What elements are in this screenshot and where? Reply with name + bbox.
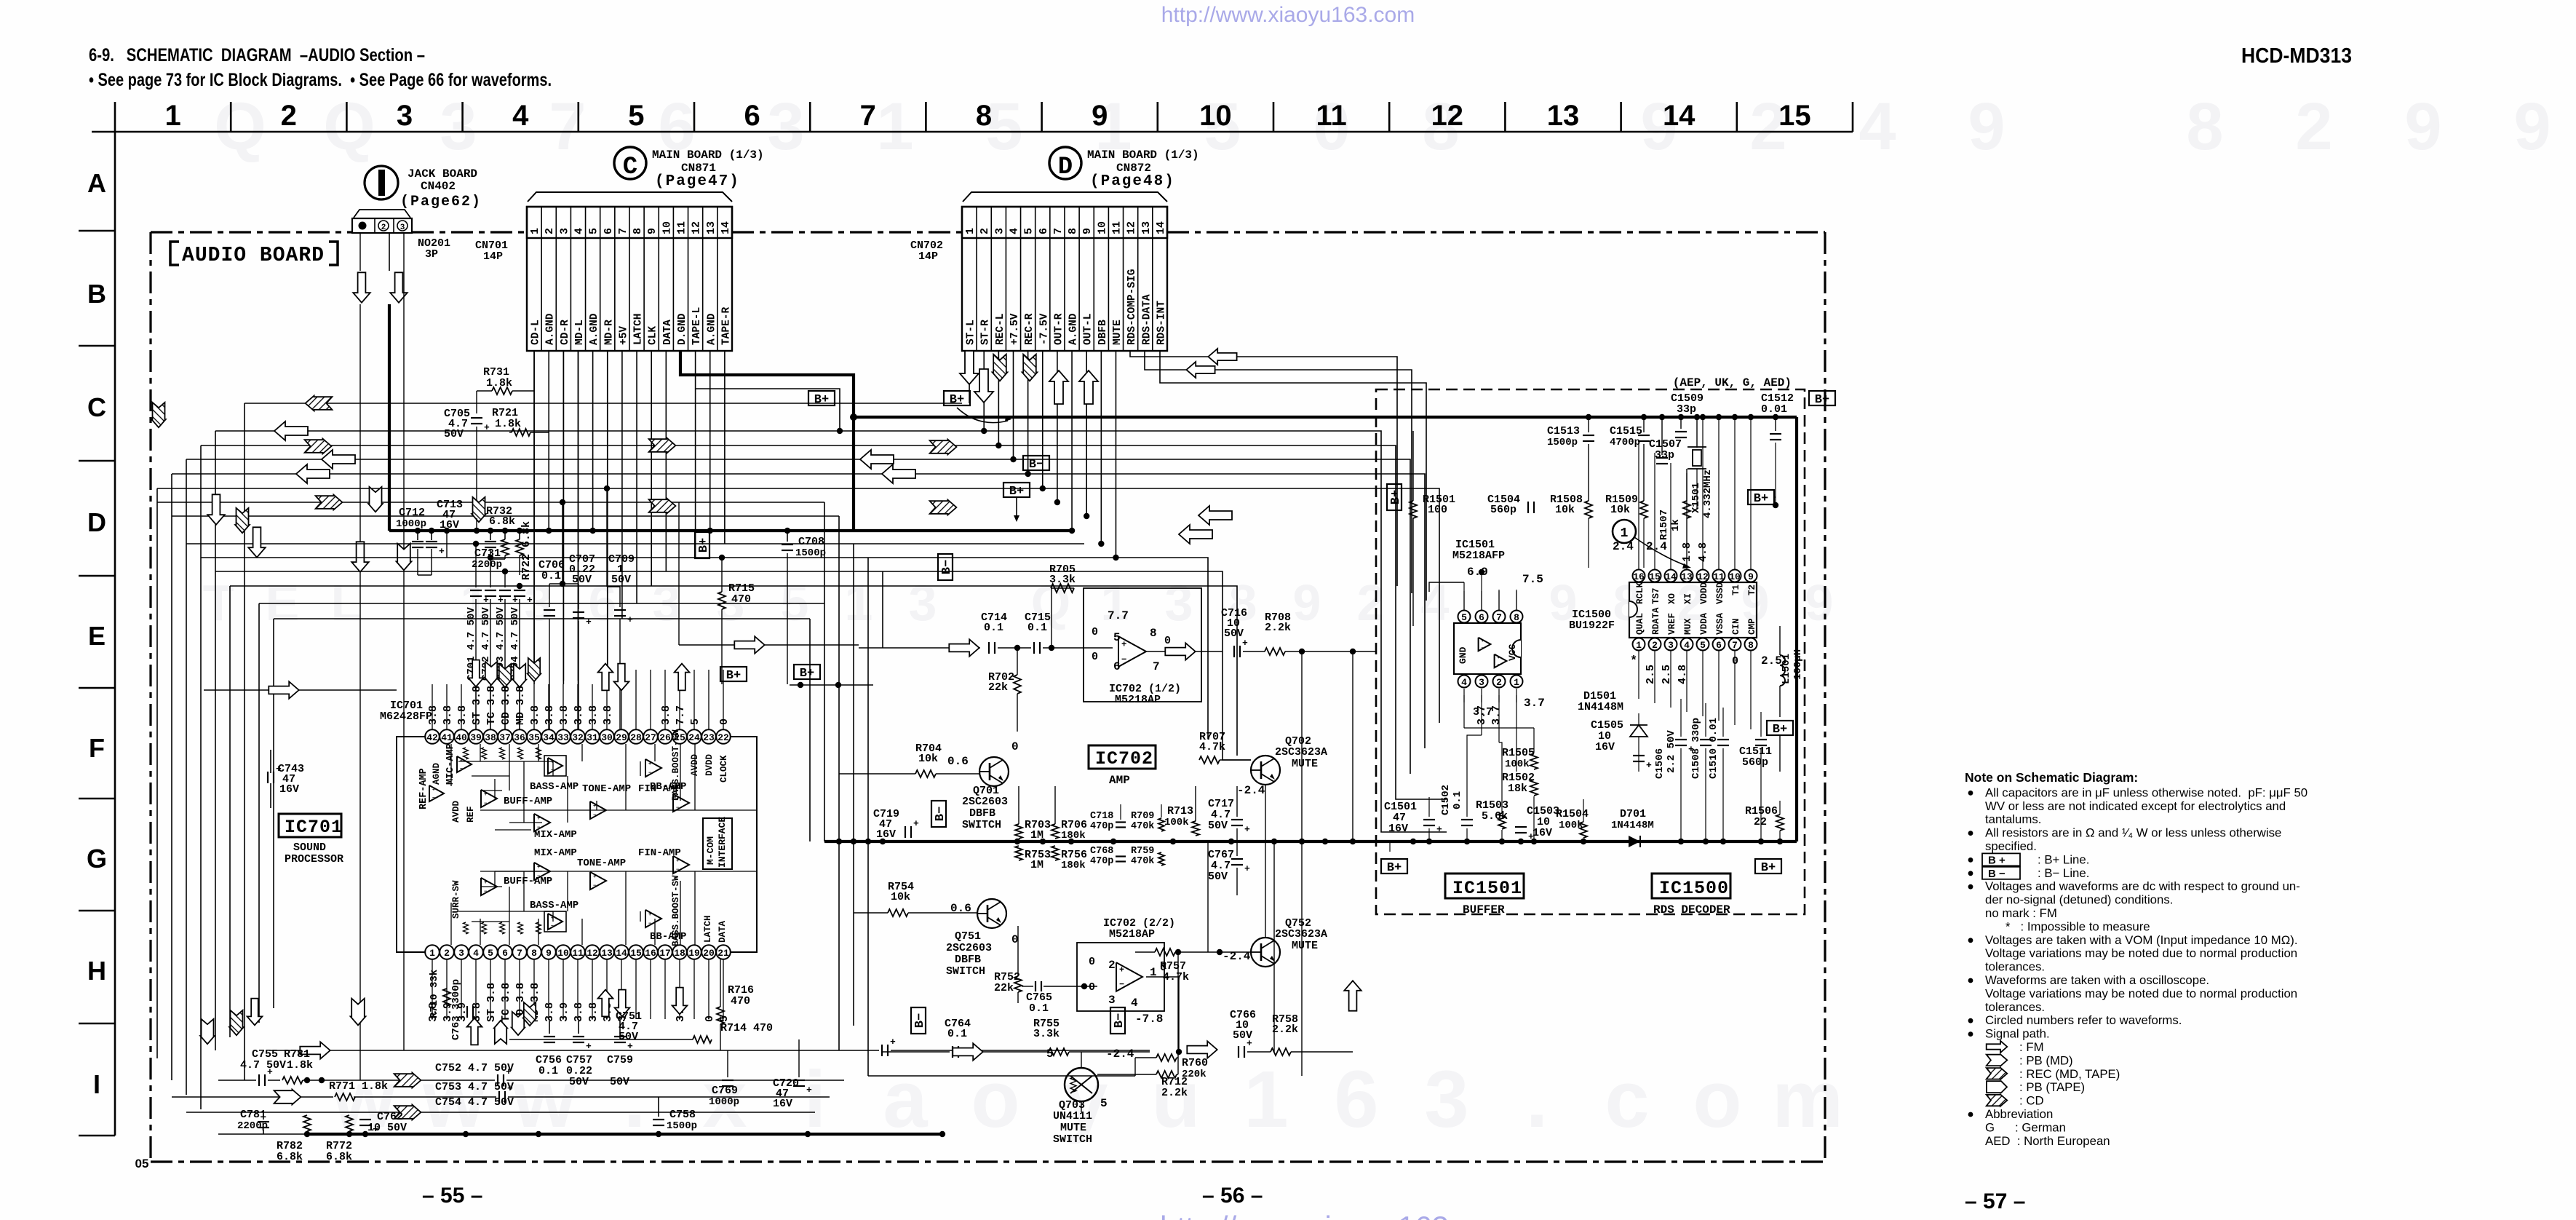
audio board outline right (1824, 232, 1826, 1162)
svg-text:1M: 1M (1030, 859, 1043, 871)
svg-text:MUTE: MUTE (1292, 940, 1318, 952)
svg-text:T: T (203, 574, 234, 631)
IC1501 DIP body (1454, 623, 1521, 674)
row line 1 with C751 (269, 1050, 879, 1051)
svg-text:B+: B+ (1389, 490, 1403, 504)
arrow rec mid 4 (930, 500, 957, 515)
svg-text:+: + (460, 758, 463, 764)
opamp IC702 2/2 box (1077, 943, 1164, 1011)
svg-text:20: 20 (703, 948, 715, 959)
svg-text:REC-R: REC-R (1024, 313, 1035, 345)
svg-text:1: 1 (429, 948, 435, 959)
svg-text:+: + (586, 1041, 592, 1052)
svg-text:IC1501: IC1501 (1452, 878, 1522, 899)
B+ below left (1381, 859, 1407, 875)
svg-text:1500p: 1500p (795, 547, 826, 559)
wire bundle h8 (172, 515, 839, 517)
arrow right row1 (300, 1042, 330, 1058)
svg-text:JACK BOARD: JACK BOARD (408, 167, 477, 181)
audio board label (170, 242, 179, 265)
IC1500 bottom pin wires (1638, 651, 1639, 699)
svg-text:2: 2 (281, 100, 297, 132)
wires CN702 rds pins right (1130, 351, 1397, 586)
svg-text:8: 8 (1748, 640, 1754, 651)
svg-text:TAPE-R: TAPE-R (720, 306, 732, 345)
svg-text:38: 38 (485, 732, 496, 743)
svg-text:0: 0 (1089, 981, 1095, 994)
wire bundle h11 (215, 571, 1251, 760)
svg-text:50V: 50V (1208, 820, 1228, 832)
wire bundle h13 (to IC702 input) (259, 603, 824, 604)
svg-text:9: 9 (646, 228, 659, 234)
svg-text:12: 12 (1431, 100, 1464, 132)
svg-text:9: 9 (1293, 574, 1321, 631)
svg-text:−: − (593, 883, 596, 889)
svg-text:+: + (506, 1066, 512, 1077)
svg-text:: PB (MD): : PB (MD) (2019, 1053, 2073, 1067)
svg-text:30: 30 (601, 732, 613, 743)
svg-text:3: 3 (993, 228, 1006, 234)
svg-text:4.7 50V: 4.7 50V (240, 1059, 286, 1072)
wire IC702 output (1146, 651, 1223, 652)
svg-text:42: 42 (426, 732, 438, 743)
wire bundle h9 (186, 543, 1084, 544)
svg-text:http://www.xiaoyu163.com: http://www.xiaoyu163.com (1160, 1210, 1515, 1220)
IC701 internal wiring mesh (450, 744, 452, 786)
svg-text:2: 2 (1108, 959, 1116, 972)
svg-text:0.1: 0.1 (541, 570, 561, 582)
svg-text:1: 1 (876, 90, 913, 164)
svg-text:Waveforms are taken with a osc: Waveforms are taken with a oscilloscope. (1985, 973, 2209, 987)
svg-text:18: 18 (674, 948, 685, 959)
IC701 bottom pins 1-21 (425, 945, 440, 959)
svg-text:16: 16 (645, 948, 656, 959)
svg-text:BASS-AMP: BASS-AMP (530, 781, 579, 793)
svg-text:D: D (1058, 154, 1073, 181)
svg-text:13: 13 (601, 948, 613, 959)
left ruler line (114, 132, 116, 1136)
svg-text:+5V: +5V (618, 326, 629, 345)
svg-text:3.7: 3.7 (1490, 705, 1503, 725)
B+ label above IC702 (794, 665, 820, 681)
feedback wire R705 (1051, 588, 1052, 648)
svg-text:0.1: 0.1 (1452, 791, 1463, 809)
svg-text:LATCH: LATCH (703, 915, 713, 943)
wire bundle h6 (157, 488, 1439, 723)
CN402 brace (354, 210, 410, 218)
arrow down D row2 (207, 494, 224, 524)
B+ rotated left in RDS box (1387, 484, 1403, 510)
svg-text:+: + (527, 595, 533, 606)
arrow right row2 rec (394, 1073, 421, 1088)
svg-text:M-COM: M-COM (705, 836, 716, 865)
svg-text:C: C (87, 392, 106, 422)
svg-text:15: 15 (1649, 571, 1661, 582)
svg-text:3.8: 3.8 (529, 705, 541, 725)
svg-text:-7.8: -7.8 (1135, 1013, 1163, 1026)
IC701 internal small resistors (464, 748, 469, 759)
svg-text:3: 3 (653, 574, 681, 631)
B- label mid (1023, 456, 1049, 472)
svg-text:16V: 16V (876, 828, 896, 841)
svg-text:I: I (93, 1069, 100, 1099)
arrow rec mid 2 (649, 499, 676, 514)
arrows above IC701 pins (469, 660, 484, 687)
svg-text:ST 3.8: ST 3.8 (471, 686, 483, 725)
svg-text:6: 6 (1038, 228, 1050, 234)
svg-text:Q: Q (214, 90, 266, 164)
svg-text:6: 6 (1113, 660, 1121, 673)
svg-text:• See page 73 for IC Block Dia: • See page 73 for IC Block Diagrams. • S… (89, 70, 552, 90)
IC701 long signal lines (480, 809, 757, 811)
wire bundle h12 (230, 586, 1237, 756)
svg-text:35: 35 (528, 732, 540, 743)
svg-text:16V: 16V (1533, 827, 1552, 839)
svg-text:7: 7 (860, 100, 876, 132)
svg-text:7: 7 (517, 948, 522, 959)
arrow left bundle 5 (296, 464, 330, 483)
audio board outline top (151, 231, 352, 233)
svg-text:1500p: 1500p (1547, 437, 1578, 448)
svg-text:16V: 16V (1595, 741, 1615, 753)
svg-text:10: 10 (661, 221, 673, 234)
svg-text:4: 4 (1684, 640, 1690, 651)
svg-text:TC 3.8: TC 3.8 (485, 686, 498, 725)
svg-text:E: E (266, 574, 300, 631)
svg-text:DVDD: DVDD (704, 753, 715, 776)
arrow up CN702 out-r (1049, 371, 1068, 404)
arrow rec bundle 3 (305, 439, 332, 454)
audio board outline left (149, 232, 151, 1162)
svg-text:RDS-INT: RDS-INT (1156, 301, 1167, 345)
svg-text:TC 3.8: TC 3.8 (500, 983, 512, 1022)
svg-text:C712: C712 (399, 507, 425, 519)
svg-text:H: H (87, 956, 106, 986)
svg-text:SWITCH: SWITCH (1053, 1133, 1092, 1146)
svg-text:100μH: 100μH (1792, 649, 1804, 680)
svg-text:All capacitors are in μF unles: All capacitors are in μF unless otherwis… (1985, 785, 2307, 799)
svg-text:3.8: 3.8 (587, 1002, 600, 1022)
svg-text:B: B (87, 279, 106, 309)
svg-text:SOUND: SOUND (293, 841, 326, 854)
svg-text:A.GND: A.GND (589, 313, 600, 345)
svg-text:R759: R759 (1131, 846, 1154, 857)
svg-text:+: + (276, 764, 282, 775)
svg-text:37: 37 (499, 732, 511, 743)
svg-text:7: 7 (1052, 228, 1065, 234)
svg-text:470: 470 (731, 995, 750, 1007)
svg-text:GND: GND (1458, 646, 1468, 664)
svg-text:1: 1 (1621, 526, 1629, 541)
arrow left mid 2 (882, 464, 915, 483)
svg-text:2: 2 (1652, 640, 1658, 651)
svg-text:QUAL: QUAL (1635, 613, 1645, 635)
svg-text:CD 3.8: CD 3.8 (500, 686, 512, 725)
svg-text:C708: C708 (798, 536, 824, 548)
wire bundle h2 (215, 431, 1447, 832)
svg-text:CD-R: CD-R (560, 320, 571, 345)
arrow rec mid 3 (930, 440, 957, 455)
svg-text:6: 6 (1479, 612, 1484, 623)
svg-text:33p: 33p (1677, 403, 1696, 416)
amp BASS-AMP 2 (544, 911, 566, 932)
svg-text:AED : North European: AED : North European (1985, 1134, 2110, 1148)
arrow left lower right 1 (1198, 506, 1232, 525)
svg-text:TONE-AMP: TONE-AMP (577, 857, 626, 869)
wires CN702 pins down (969, 351, 970, 403)
svg-text:MD-R: MD-R (603, 320, 615, 345)
wire bundle h7 (157, 502, 824, 503)
arrow left bundle 2 (274, 421, 308, 440)
wire bundle h10 (201, 558, 1208, 739)
svg-text:TONE-AMP: TONE-AMP (582, 783, 631, 795)
B+ bus right vertical (1795, 417, 1798, 841)
top ruler line (92, 131, 1853, 133)
svg-text:8: 8 (976, 100, 992, 132)
amp BB-AMP 2 (645, 910, 661, 927)
svg-text:DATA: DATA (717, 920, 728, 943)
svg-text:3: 3 (400, 223, 405, 232)
svg-text:1: 1 (1636, 640, 1642, 651)
svg-text:*: * (1630, 654, 1637, 668)
svg-text:15: 15 (630, 948, 642, 959)
wire CN402 pin1 down (359, 233, 361, 271)
transistor Q751 (977, 899, 1006, 928)
svg-text:-7.5V: -7.5V (1038, 313, 1050, 345)
svg-text:6.8k: 6.8k (326, 1151, 352, 1163)
wire jog x1154 (696, 389, 840, 431)
svg-text:BASS.BOOST-SW: BASS.BOOST-SW (671, 875, 681, 946)
svg-text:R771 1.8k: R771 1.8k (329, 1080, 388, 1093)
svg-text:−: − (593, 812, 596, 818)
svg-text:CLOCK: CLOCK (719, 755, 729, 783)
svg-text:+: + (1121, 639, 1126, 649)
IC1500 pins top (1633, 570, 1645, 582)
lower wiring row C764 (883, 1051, 950, 1053)
svg-text:180k: 180k (1061, 860, 1086, 871)
svg-text:−: − (1121, 654, 1126, 665)
svg-text:22: 22 (717, 732, 729, 743)
svg-text:3.8: 3.8 (587, 705, 600, 725)
svg-text:-2.4: -2.4 (1106, 1047, 1134, 1061)
IC1500 top pin wires (1638, 443, 1639, 569)
svg-text:4: 4 (1008, 228, 1020, 234)
connector CN702 body (962, 207, 1167, 238)
svg-text:470k: 470k (1131, 821, 1154, 832)
svg-text:36: 36 (514, 732, 525, 743)
svg-text:CN402: CN402 (421, 180, 456, 193)
svg-text:3.8: 3.8 (456, 705, 469, 725)
svg-text:+: + (537, 816, 540, 822)
svg-text:CIN: CIN (1731, 618, 1741, 635)
transistor Q703 mute switch (1065, 1068, 1098, 1101)
main bus through IC702 (824, 840, 1797, 843)
svg-text:AVDD: AVDD (451, 800, 461, 823)
svg-text:VDDD: VDDD (1699, 582, 1709, 604)
arrow up right of Q752 (1344, 981, 1361, 1010)
svg-text:B+: B+ (1773, 723, 1787, 737)
arrow down D row3 (235, 508, 250, 533)
svg-text:MAIN BOARD (1/3): MAIN BOARD (1/3) (1087, 148, 1199, 162)
svg-text:2: 2 (381, 223, 386, 232)
svg-text:8: 8 (2186, 90, 2223, 164)
svg-text:MIX-AMP: MIX-AMP (534, 829, 577, 841)
svg-text:9: 9 (1748, 571, 1754, 582)
connector CN402 body (352, 218, 412, 233)
svg-text:.: . (624, 1055, 646, 1144)
wire b+ link line (790, 684, 873, 686)
svg-text:+: + (627, 614, 633, 625)
svg-text:28: 28 (630, 732, 642, 743)
svg-text:10k: 10k (1610, 504, 1630, 516)
svg-text:14: 14 (1155, 221, 1167, 234)
svg-text:470p: 470p (1090, 821, 1113, 832)
svg-text:2.2k: 2.2k (1265, 622, 1291, 634)
svg-text:2.4: 2.4 (1646, 540, 1667, 553)
svg-text:B+: B+ (726, 669, 741, 683)
svg-text:3.7: 3.7 (1524, 697, 1545, 710)
svg-text:+: + (890, 1037, 896, 1047)
svg-text:B+: B+ (1754, 492, 1768, 506)
arrow down below CN402 pin2 (353, 272, 370, 302)
svg-text:12: 12 (691, 221, 703, 234)
svg-text:C1515: C1515 (1610, 425, 1642, 437)
svg-text:32: 32 (572, 732, 584, 743)
svg-text:MAIN BOARD (1/3): MAIN BOARD (1/3) (652, 148, 764, 162)
svg-text:VSSA: VSSA (1715, 612, 1725, 635)
svg-text:MUX: MUX (1683, 618, 1693, 635)
svg-text:Q751: Q751 (955, 930, 981, 943)
IC1501 pins top (1458, 611, 1471, 623)
svg-text:1: 1 (1244, 1055, 1288, 1144)
arrow down c area (248, 527, 265, 557)
svg-text:3: 3 (767, 90, 804, 164)
svg-text:6.9: 6.9 (1467, 566, 1488, 579)
svg-text:0: 0 (1011, 740, 1019, 753)
svg-text:3.8: 3.8 (602, 705, 614, 725)
svg-text:9: 9 (1805, 574, 1834, 631)
svg-text:7: 7 (1732, 640, 1738, 651)
svg-text:+: + (439, 546, 445, 557)
svg-text:BU1922F: BU1922F (1569, 619, 1615, 632)
svg-text:1: 1 (529, 228, 541, 234)
svg-text:o: o (1693, 1055, 1741, 1144)
svg-text:A: A (87, 168, 106, 198)
svg-text:Abbreviation: Abbreviation (1985, 1107, 2053, 1121)
B- label row (911, 1007, 927, 1034)
amp BUFF-AMP 1 (481, 790, 497, 807)
svg-text:24: 24 (688, 732, 700, 743)
svg-text:BASS.BOOST-SW: BASS.BOOST-SW (671, 729, 681, 801)
svg-text:2: 2 (444, 948, 450, 959)
svg-text:no mark : FM: no mark : FM (1985, 906, 2057, 920)
B- label near Q701 (931, 801, 947, 827)
svg-text:: FM: : FM (2019, 1040, 2044, 1054)
IC1501 boxed label (1445, 874, 1524, 898)
svg-text:3.8: 3.8 (442, 705, 454, 725)
B+ at IC701 right (720, 667, 747, 683)
svg-text:10: 10 (1096, 221, 1108, 234)
svg-text:OUT-L: OUT-L (1083, 313, 1094, 345)
IC1501 pins bottom (1458, 676, 1471, 688)
arrow down D row (151, 403, 166, 427)
svg-text:6: 6 (1716, 640, 1722, 651)
svg-text:2.4: 2.4 (1613, 540, 1634, 553)
svg-text:10: 10 (1729, 571, 1741, 582)
svg-text:8: 8 (1514, 612, 1519, 623)
arrow right c764 (953, 1043, 982, 1060)
svg-text:4.332MHz: 4.332MHz (1702, 470, 1714, 518)
svg-text:2SC3623A: 2SC3623A (1275, 746, 1327, 758)
svg-text:9: 9 (2513, 90, 2551, 164)
svg-text:5: 5 (1113, 631, 1121, 644)
svg-text:8: 8 (1150, 627, 1157, 640)
svg-text:9: 9 (1081, 228, 1094, 234)
CN701 brace (528, 192, 732, 202)
svg-text:+: + (1119, 965, 1124, 975)
svg-text:1: 1 (1101, 574, 1129, 631)
svg-text:+: + (648, 761, 651, 767)
svg-text:3: 3 (1424, 1055, 1468, 1144)
arrow right E row (269, 681, 298, 698)
svg-text:– 55 –: – 55 – (422, 1184, 482, 1208)
svg-text:14: 14 (720, 221, 732, 234)
svg-text:5: 5 (1100, 1097, 1108, 1110)
IC1500 DIP body (1629, 582, 1757, 638)
svg-text:18k: 18k (1508, 783, 1527, 795)
svg-text:11: 11 (1713, 571, 1725, 582)
svg-text:3.8: 3.8 (660, 705, 672, 725)
svg-text:22k: 22k (988, 681, 1008, 694)
arrow down D row4 (368, 487, 383, 512)
RDS box dashed outline (1376, 389, 1805, 914)
B+ bus thick from CN701 (680, 351, 1797, 417)
svg-text:−: − (551, 924, 554, 929)
svg-text:* : Impossible to measure: * : Impossible to measure (1985, 919, 2150, 933)
svg-text:4700p: 4700p (1610, 437, 1640, 448)
left bundle vertical drops (156, 488, 158, 1058)
svg-text:WV or less are not indicated e: WV or less are not indicated except for … (1985, 799, 2286, 813)
svg-text:0: 0 (1164, 635, 1171, 647)
svg-text:−: − (648, 770, 651, 776)
IC702 boxed label (1089, 745, 1156, 769)
svg-text:100k: 100k (1164, 817, 1189, 828)
svg-text:1N4148M: 1N4148M (1578, 701, 1623, 713)
svg-text:0: 0 (1160, 962, 1166, 974)
svg-text:16V: 16V (1388, 823, 1408, 835)
svg-text:HCD-MD313: HCD-MD313 (2241, 44, 2352, 68)
svg-text:: B+ Line.: : B+ Line. (2038, 852, 2089, 866)
svg-text:RDATA: RDATA (1651, 607, 1661, 635)
wires CN701 pins down (533, 351, 535, 681)
svg-text:F: F (89, 733, 105, 763)
IC701 internal amps (429, 785, 444, 801)
svg-text:14P: 14P (918, 250, 938, 263)
svg-text:1000p: 1000p (396, 518, 426, 530)
wires Q70x to bus (1265, 785, 1266, 841)
svg-text:−: − (432, 796, 435, 801)
svg-text:−: − (648, 921, 651, 927)
svg-text:B−: B− (913, 1013, 927, 1028)
svg-text:SWITCH: SWITCH (962, 819, 1001, 831)
svg-text:2SC2603: 2SC2603 (962, 796, 1008, 808)
B+ label left of CN702 (808, 391, 835, 407)
svg-text:ST-R: ST-R (980, 320, 992, 345)
svg-text:+: + (484, 792, 487, 798)
svg-text:OUT-R: OUT-R (1053, 313, 1065, 345)
svg-text:CLK: CLK (648, 326, 659, 345)
svg-text:100k: 100k (1505, 758, 1530, 770)
